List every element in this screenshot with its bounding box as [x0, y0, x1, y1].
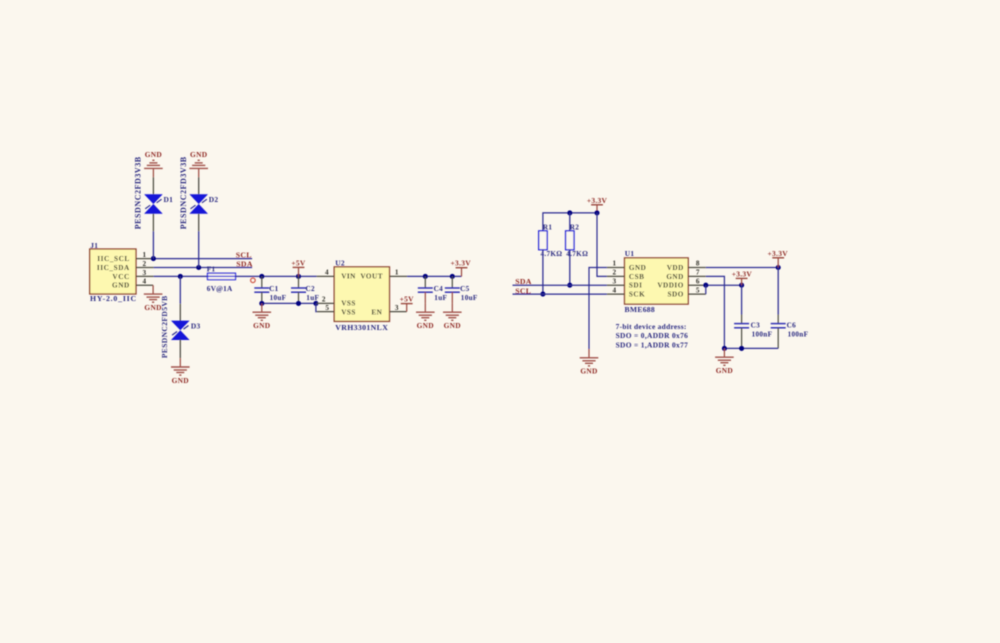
svg-text:D1: D1 [164, 195, 174, 204]
svg-text:+3.3V: +3.3V [587, 196, 608, 205]
svg-text:2: 2 [143, 260, 147, 268]
svg-text:R1: R1 [543, 224, 552, 232]
wire U1 VDDIO to +3.3V and C3 [706, 284, 742, 286]
wire +3.3V rail to resistors [543, 213, 597, 231]
wire SCL to U1 SCK [513, 293, 607, 295]
svg-text:7-bit device address:: 7-bit device address: [616, 322, 687, 331]
capacitor C5 [445, 276, 460, 303]
diode D3 upper pin [179, 304, 181, 322]
connector J1 box [90, 249, 136, 294]
junction VDD at +3.3V [776, 265, 781, 270]
svg-text:VRH3301NLX: VRH3301NLX [335, 323, 388, 332]
svg-text:GND: GND [190, 150, 207, 159]
ground at U1 pin1 [580, 349, 599, 376]
svg-text:VCC: VCC [112, 273, 129, 281]
svg-text:1: 1 [613, 260, 617, 268]
J1 pin 3 stub [136, 275, 154, 277]
U1 right pin 5 stub [688, 293, 706, 295]
svg-text:VOUT: VOUT [360, 273, 383, 281]
svg-text:6: 6 [696, 277, 700, 285]
svg-text:C3: C3 [751, 321, 760, 329]
ERC marker red circle [251, 278, 256, 283]
wire VDDIO down to C3 [741, 285, 743, 314]
svg-text:C2: C2 [306, 285, 315, 293]
sensor U1 box [625, 258, 689, 304]
svg-text:PESDNC2FD3V3B: PESDNC2FD3V3B [134, 156, 143, 229]
svg-text:EN: EN [371, 308, 382, 316]
svg-text:C5: C5 [460, 285, 469, 293]
ground above D2 [189, 150, 208, 177]
svg-text:SDO = 0,ADDR 0x76: SDO = 0,ADDR 0x76 [616, 331, 689, 340]
diode D1 lower pin [152, 214, 154, 232]
svg-text:+5V: +5V [400, 295, 415, 304]
junction SDO riser at VDDIO [703, 283, 708, 288]
TVS diode D3 [171, 321, 190, 340]
svg-text:BME688: BME688 [625, 305, 656, 314]
svg-text:C4: C4 [434, 285, 443, 293]
svg-text:GND: GND [253, 321, 270, 330]
U1 left pin 1 stub [607, 267, 625, 269]
svg-text:10uF: 10uF [270, 294, 287, 302]
resistor R1 body [539, 231, 547, 250]
wire VCC from J1 pin3 to fuse F1 [154, 275, 208, 277]
svg-text:1uF: 1uF [306, 294, 319, 302]
power +3.3V at VDD [768, 249, 789, 268]
svg-text:PESDNC2FD3V3B: PESDNC2FD3V3B [179, 156, 188, 229]
power +5V at U2 EN [400, 295, 415, 312]
J1 pin 4 stub [136, 284, 153, 286]
svg-text:8: 8 [696, 260, 700, 268]
ground at J1 pin 4 [144, 285, 163, 312]
ground above D1 [144, 150, 163, 177]
U1 right pin 7 stub [688, 275, 706, 277]
U2 pin 4 stub VIN [317, 275, 335, 277]
svg-text:F1: F1 [207, 266, 216, 274]
regulator U2 box [334, 267, 389, 322]
svg-text:5: 5 [325, 304, 329, 312]
junction VDDIO at +3.3V stem [739, 283, 744, 288]
svg-text:+3.3V: +3.3V [732, 269, 753, 278]
svg-text:D2: D2 [209, 195, 219, 204]
svg-text:GND: GND [172, 376, 189, 385]
ground below C1 [253, 303, 272, 330]
svg-text:SCL: SCL [236, 250, 252, 259]
svg-text:+3.3V: +3.3V [451, 259, 472, 268]
svg-text:U1: U1 [625, 249, 635, 258]
svg-text:D3: D3 [191, 321, 201, 330]
junction R2 at SDA [567, 283, 572, 288]
svg-text:GND: GND [666, 273, 683, 281]
power +5V at C2 [291, 258, 306, 276]
diode D2 lower pin [198, 214, 200, 232]
U1 left pin 4 stub [607, 293, 625, 295]
svg-text:1: 1 [143, 251, 147, 259]
svg-text:5: 5 [696, 286, 700, 294]
junction at D1 and SCL wire [151, 256, 156, 261]
svg-text:J1: J1 [90, 241, 98, 250]
TVS diode D1 [144, 194, 163, 213]
capacitor C2 [291, 276, 306, 303]
wire U2 VOUT to +3.3V [407, 275, 461, 277]
svg-text:GND: GND [716, 366, 733, 375]
TVS diode D2 [189, 194, 208, 213]
ground right section [715, 348, 734, 375]
junction at +3.3V stem [594, 210, 599, 215]
diode D1 upper pin [152, 177, 154, 194]
svg-text:+3.3V: +3.3V [768, 249, 789, 258]
junction at D2 and SDA wire [196, 265, 201, 270]
wire D1 to SCL [152, 231, 154, 258]
svg-text:VSS: VSS [341, 308, 356, 316]
U1 right pin 8 stub [688, 267, 706, 269]
wire C1/C2 ground rail to U2 VSS pin2 [262, 302, 317, 304]
diode D3 lower pin [179, 339, 181, 358]
svg-text:1: 1 [395, 269, 399, 277]
svg-text:VIN: VIN [341, 273, 356, 281]
svg-text:GND: GND [629, 264, 646, 272]
R1 lower lead to SCL [542, 250, 544, 294]
svg-text:SCL: SCL [515, 286, 531, 295]
wire U1 VDD to +3.3V and C6 [706, 267, 778, 269]
wire VDD down to C6 [777, 268, 779, 315]
wire SDA to U1 SDI [513, 284, 607, 286]
J1 pin 1 stub [136, 258, 154, 260]
svg-text:PESDNC2FD5VB: PESDNC2FD5VB [160, 295, 169, 358]
wire SDA from J1 pin2 to net label [154, 267, 253, 269]
svg-text:GND: GND [417, 321, 434, 330]
svg-text:4: 4 [613, 286, 617, 294]
power +3.3V at U2 output [451, 259, 472, 277]
svg-text:R2: R2 [570, 224, 579, 232]
svg-text:10uF: 10uF [461, 294, 478, 302]
svg-text:IIC_SCL: IIC_SCL [97, 255, 130, 263]
svg-text:SDO = 1,ADDR 0x77: SDO = 1,ADDR 0x77 [616, 340, 689, 349]
wire branch to U2 VSS pin5 [315, 303, 318, 311]
svg-text:SDO: SDO [668, 291, 684, 299]
junction at C2 and +5V [296, 274, 301, 279]
wire SCL from J1 pin1 to net label [154, 258, 253, 260]
svg-text:3: 3 [143, 269, 147, 277]
U2 pin 2 stub VSS [317, 302, 335, 304]
svg-text:U2: U2 [335, 259, 345, 268]
junction at C1 [259, 274, 264, 279]
svg-text:100nF: 100nF [752, 331, 773, 339]
svg-text:GND: GND [145, 150, 162, 159]
junction VSS branch [313, 301, 318, 306]
svg-text:+5V: +5V [291, 258, 306, 267]
svg-text:VSS: VSS [341, 300, 356, 308]
junction R1 at SCL [540, 292, 545, 297]
wire U1 SDO up to VDDIO [705, 285, 707, 294]
svg-text:VDD: VDD [667, 264, 684, 272]
power +3.3V at VDDIO [732, 269, 753, 285]
wire bottom ground rail right section [724, 347, 778, 349]
power +3.3V top rail [587, 196, 608, 213]
junction at C5 [450, 274, 455, 279]
svg-text:IIC_SDA: IIC_SDA [97, 264, 130, 272]
svg-text:C6: C6 [787, 321, 796, 329]
junction ground rail at pin7 drop [722, 346, 727, 351]
junction at R2 top [567, 210, 572, 215]
svg-text:3: 3 [613, 277, 617, 285]
U2 pin 5 stub VSS [317, 311, 334, 313]
junction at D3 branch [178, 274, 183, 279]
junction C2 bottom [296, 301, 301, 306]
svg-text:2: 2 [613, 269, 617, 277]
junction ground rail at C3 [739, 346, 744, 351]
svg-text:7: 7 [696, 269, 700, 277]
wire D2 to SDA [198, 231, 200, 267]
svg-text:1uF: 1uF [434, 294, 447, 302]
svg-text:GND: GND [580, 367, 597, 376]
svg-text:4.7KΩ: 4.7KΩ [541, 250, 563, 258]
R2 lower lead to SDA [569, 250, 571, 286]
R2 upper lead [569, 213, 571, 231]
U2 pin 3 stub EN [390, 311, 407, 313]
capacitor C1 [254, 276, 269, 303]
svg-text:6V@1A: 6V@1A [207, 285, 233, 293]
svg-text:SDA: SDA [236, 260, 253, 269]
U1 right pin 6 stub [688, 284, 706, 286]
svg-text:4: 4 [325, 269, 329, 277]
diode D2 upper pin [198, 177, 200, 194]
svg-text:SDI: SDI [629, 282, 643, 290]
fuse F1 body [208, 273, 236, 279]
wire U1 pin1 to ground [589, 268, 607, 350]
wire U1 pin7 GND down to ground rail [706, 276, 725, 348]
svg-text:GND: GND [444, 321, 461, 330]
capacitor C4 [418, 276, 433, 303]
svg-text:SCK: SCK [629, 291, 645, 299]
svg-text:3: 3 [395, 304, 399, 312]
svg-text:2: 2 [322, 296, 326, 304]
resistor R2 body [566, 231, 574, 250]
ground below C4 [416, 303, 435, 330]
capacitor C3 [734, 315, 749, 349]
wire VCC down to D3 [179, 276, 181, 303]
svg-text:CSB: CSB [629, 273, 644, 281]
U2 pin 1 stub VOUT [390, 275, 408, 277]
U1 left pin 2 stub [607, 275, 625, 277]
ground below C5 [443, 303, 462, 330]
svg-text:C1: C1 [269, 285, 278, 293]
svg-text:SDA: SDA [515, 277, 532, 286]
junction at C4 [423, 274, 428, 279]
svg-text:HY-2.0_IIC: HY-2.0_IIC [90, 294, 137, 303]
svg-text:VDDIO: VDDIO [657, 282, 683, 290]
ground below D3 [171, 358, 190, 385]
wire fuse to U2 VIN [236, 275, 317, 277]
U1 left pin 3 stub [607, 284, 625, 286]
junction C1 bottom [259, 301, 264, 306]
J1 pin 2 stub [136, 267, 154, 269]
svg-text:4: 4 [143, 278, 147, 286]
svg-text:GND: GND [112, 282, 130, 290]
capacitor C6 [771, 315, 786, 349]
svg-text:100nF: 100nF [788, 331, 809, 339]
wire +3.3V down to U1 CSB [597, 213, 607, 277]
